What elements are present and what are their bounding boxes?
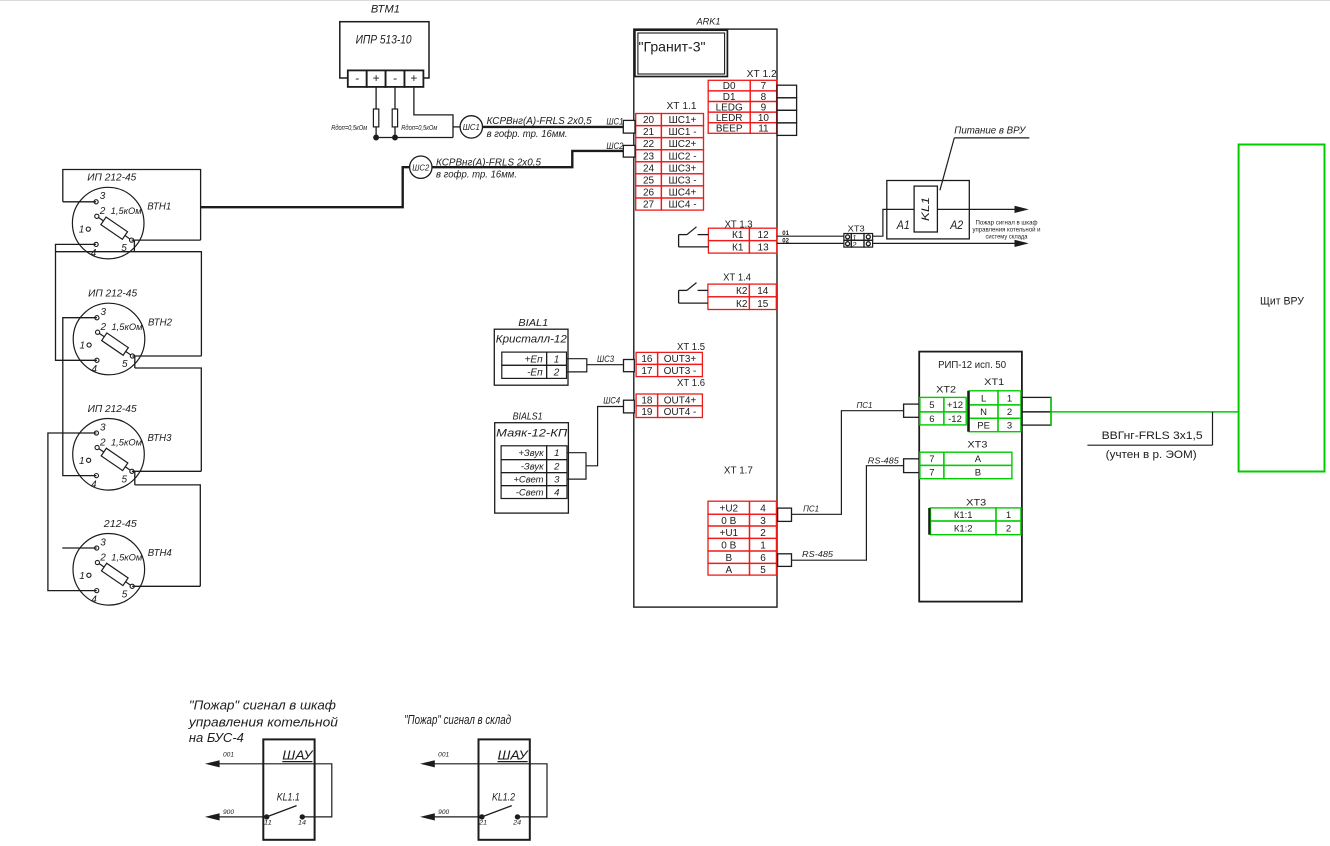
pin 5 of ВТН3	[130, 469, 134, 473]
svg-text:13: 13	[758, 242, 770, 253]
svg-text:001: 001	[223, 753, 234, 759]
svg-text:ВТН1: ВТН1	[147, 202, 171, 213]
svg-text:ИП 212-45: ИП 212-45	[88, 289, 137, 300]
terminal table of BIALS1	[501, 446, 567, 499]
wire 001 output	[209, 764, 332, 817]
svg-text:ХТ 1.4: ХТ 1.4	[723, 272, 751, 283]
resistor 1,5кОм inside ВТН3	[96, 445, 133, 474]
label ШАУ	[282, 747, 314, 762]
terminal table XT1.4 (relay K2)	[708, 284, 776, 310]
svg-text:1: 1	[80, 341, 86, 352]
svg-text:ШС2 -: ШС2 -	[668, 151, 696, 162]
wire ВТН3 pin3 to ВТН4 pin4	[48, 433, 97, 591]
svg-text:-: -	[355, 71, 359, 85]
svg-text:1,5кОм: 1,5кОм	[111, 206, 142, 216]
wire jog box1 to box2	[133, 240, 135, 252]
pin 1 of ВТН1	[86, 227, 90, 231]
svg-text:5: 5	[760, 565, 766, 576]
svg-text:А1: А1	[896, 218, 910, 232]
svg-text:2: 2	[99, 206, 106, 217]
pin 3 of ВТН4	[95, 546, 99, 550]
wire box around ВТН1	[63, 170, 201, 241]
svg-text:ХТ 1.1: ХТ 1.1	[667, 101, 697, 112]
svg-text:L: L	[981, 393, 986, 404]
svg-text:-12: -12	[948, 414, 962, 425]
svg-text:управления котельной: управления котельной	[188, 715, 338, 730]
svg-text:-Звук: -Звук	[521, 462, 544, 473]
svg-text:ШАУ: ШАУ	[282, 747, 314, 762]
terminal table XT1.1	[636, 114, 704, 211]
wire resistors to junction	[375, 127, 377, 138]
node ШС1 (loop 1 cable marker)	[460, 116, 482, 138]
svg-text:+U2: +U2	[719, 503, 738, 514]
connector stub ШС4 at XT1.6	[624, 400, 635, 413]
svg-text:12: 12	[758, 230, 770, 241]
svg-text:OUT4+: OUT4+	[664, 396, 697, 407]
wire 900 output	[209, 816, 267, 818]
svg-text:ШС2+: ШС2+	[669, 139, 697, 150]
svg-text:ХТ3: ХТ3	[967, 440, 987, 450]
svg-text:7: 7	[929, 454, 934, 465]
svg-text:ХТ3: ХТ3	[848, 223, 865, 233]
terminal table XT1 of РИП	[969, 391, 1021, 432]
green wire 220V to Щит ВРУ	[1051, 397, 1239, 425]
svg-text:5: 5	[122, 589, 128, 600]
pin 3 of ВТН3	[94, 431, 98, 435]
pin 2 of ВТН3	[95, 445, 99, 449]
svg-text:5: 5	[929, 400, 934, 411]
svg-text:"Гранит-3": "Гранит-3"	[639, 39, 706, 55]
sounder box Маяк-12-КП	[495, 423, 569, 513]
node ШС2 (loop 2 cable marker)	[410, 156, 432, 178]
svg-text:19: 19	[641, 407, 653, 418]
svg-text:ШС4+: ШС4+	[669, 188, 697, 199]
connector stub ШС3 at XT1.5	[624, 360, 635, 372]
svg-text:ШС3 -: ШС3 -	[668, 176, 696, 187]
svg-text:212-45: 212-45	[103, 519, 138, 530]
svg-text:ПС1: ПС1	[803, 505, 819, 514]
svg-text:ХТ 1.6: ХТ 1.6	[677, 378, 705, 389]
wire RS-485	[792, 466, 904, 561]
wire box around ВТН2	[56, 252, 202, 356]
power supply РИП-12 исп. 50 box	[919, 352, 1022, 602]
label ШАУ	[498, 747, 530, 762]
svg-text:3: 3	[1007, 420, 1012, 431]
svg-text:+: +	[373, 71, 380, 85]
svg-text:1: 1	[1007, 393, 1012, 404]
svg-text:2: 2	[553, 368, 560, 379]
pin 5 of ВТН2	[130, 354, 134, 358]
wire box around ВТН4	[135, 485, 201, 586]
pin 4 of ВТН4	[95, 589, 99, 593]
svg-text:А: А	[725, 565, 732, 576]
svg-text:4: 4	[91, 248, 97, 259]
svg-text:11: 11	[758, 124, 769, 135]
black bracket at XT3 K1	[928, 508, 930, 535]
svg-text:1,5кОм: 1,5кОм	[112, 322, 143, 332]
arrow 001	[420, 760, 435, 767]
svg-text:ШС4 -: ШС4 -	[668, 200, 696, 211]
svg-text:2: 2	[1007, 407, 1012, 418]
svg-text:3: 3	[100, 422, 106, 433]
terminal table of BIAL1	[502, 352, 567, 378]
wire ШС2 cable to Гранит XT1.1	[432, 151, 623, 167]
svg-text:А2: А2	[949, 218, 963, 232]
connector stub ШС2 at XT1.1	[623, 145, 635, 157]
wire box around ВТН3	[135, 368, 202, 471]
svg-text:20: 20	[643, 115, 655, 126]
wire ВТН1 pin3 feed	[63, 201, 96, 203]
wire ПС1	[792, 411, 904, 515]
svg-text:6: 6	[760, 553, 766, 564]
svg-text:1,5кОм: 1,5кОм	[111, 437, 142, 447]
svg-text:ШС2: ШС2	[606, 141, 623, 151]
svg-text:3: 3	[554, 475, 560, 486]
svg-text:1: 1	[554, 448, 559, 459]
wire 02 to output arrow	[873, 242, 1016, 244]
wire from terminal 4 (+) to ШС1 node	[414, 87, 453, 138]
junction dot 2	[393, 135, 398, 140]
svg-text:1: 1	[79, 225, 85, 236]
cabinet ШАУ box (KL1.1)	[263, 739, 314, 839]
svg-text:Маяк-12-КП: Маяк-12-КП	[496, 427, 567, 439]
svg-text:В: В	[725, 553, 732, 564]
svg-text:Питание в ВРУ: Питание в ВРУ	[954, 126, 1027, 137]
svg-text:2: 2	[99, 437, 106, 448]
pin 5 of ВТН4	[130, 584, 134, 588]
relay contact K2	[679, 283, 708, 304]
svg-text:ИП 212-45: ИП 212-45	[88, 404, 137, 415]
svg-text:ШС1: ШС1	[606, 117, 623, 127]
terminal table XT3 A/B of РИП	[920, 452, 1012, 478]
svg-text:1: 1	[760, 540, 766, 551]
note Пожар сигнал в склад	[404, 712, 511, 727]
bracket BIALS1 to ШС4	[567, 453, 586, 479]
svg-text:в гофр. тр. 16мм.: в гофр. тр. 16мм.	[487, 128, 568, 140]
junction dot 1	[374, 135, 379, 140]
svg-text:23: 23	[643, 151, 655, 162]
svg-text:OUT3 -: OUT3 -	[664, 366, 697, 377]
svg-text:1: 1	[554, 354, 560, 365]
svg-text:14: 14	[298, 821, 307, 827]
resistor Rдоп 0,5кОм (left)	[331, 109, 379, 132]
pin 2 of ВТН2	[96, 330, 100, 334]
svg-text:ШС1: ШС1	[463, 122, 480, 132]
svg-text:BEEP: BEEP	[716, 124, 743, 135]
svg-text:ХТ2: ХТ2	[936, 385, 956, 395]
svg-text:1: 1	[1006, 510, 1011, 521]
svg-text:ИПР 513-10: ИПР 513-10	[356, 34, 413, 46]
svg-text:0 В: 0 В	[721, 540, 736, 551]
wire ВТН1 bottom (pin5 to box corner)	[132, 239, 201, 241]
svg-text:ХТ 1.2: ХТ 1.2	[747, 69, 777, 80]
smoke detector ВТН3 (ИП 212-45)	[73, 404, 172, 491]
svg-text:К1: К1	[732, 242, 744, 253]
smoke detector ВТН2 (ИП 212-45)	[73, 289, 172, 376]
svg-text:3: 3	[760, 516, 766, 527]
arrow 900	[205, 813, 220, 820]
resistor 1,5кОм inside ВТН2	[97, 330, 134, 359]
black bracket at XT1	[967, 391, 969, 432]
svg-text:+U1: +U1	[719, 528, 738, 539]
pin 2 of ВТН1	[95, 214, 99, 218]
terminal strip of ИПР 513-10 (- + - +)	[348, 70, 424, 87]
terminal table XT1.6	[636, 394, 702, 418]
svg-text:ВТН4: ВТН4	[148, 548, 172, 559]
svg-text:BIALS1: BIALS1	[513, 410, 543, 422]
note Пожар сигнал в шкаф управления котельной на БУС-4	[188, 697, 338, 745]
pin 4 of ВТН1	[94, 242, 98, 246]
pin 1 of ВТН4	[87, 573, 91, 577]
svg-text:-Еп: -Еп	[527, 368, 543, 379]
svg-text:5: 5	[122, 359, 128, 370]
svg-text:ШС4: ШС4	[603, 396, 620, 406]
svg-text:ХТ1: ХТ1	[984, 377, 1004, 387]
svg-text:4: 4	[91, 594, 97, 605]
svg-text:управления котельной и: управления котельной и	[973, 226, 1041, 234]
svg-text:PE: PE	[977, 420, 990, 431]
resistor Rдоп 0,5кОм (right)	[392, 109, 437, 132]
svg-text:2: 2	[760, 528, 766, 539]
svg-text:К1: К1	[732, 230, 744, 241]
svg-text:ШС2: ШС2	[412, 162, 429, 172]
wire ШС3	[587, 364, 624, 366]
svg-text:4: 4	[92, 364, 98, 375]
wire 900 output	[424, 816, 482, 818]
wire 001 output	[424, 764, 547, 817]
svg-text:02: 02	[782, 238, 789, 244]
svg-text:5: 5	[121, 243, 127, 254]
svg-text:24: 24	[643, 163, 655, 174]
smoke detector ВТН1 (ИП 212-45)	[72, 173, 171, 260]
svg-text:Rдоп=0,5кОм: Rдоп=0,5кОм	[331, 124, 367, 132]
svg-text:В: В	[975, 468, 981, 479]
svg-text:ВТН2: ВТН2	[148, 318, 172, 329]
arrow 900	[420, 813, 435, 820]
pin 3 of ВТН2	[95, 316, 99, 320]
svg-text:ХТ3: ХТ3	[966, 498, 986, 508]
connector stub RS-485 at РИП	[904, 459, 920, 473]
svg-text:18: 18	[641, 396, 653, 407]
wire ВТН1 pin4 to ВТН2 pin4	[56, 244, 97, 360]
wire to ШС1 circle	[453, 126, 460, 128]
svg-text:26: 26	[643, 188, 655, 199]
svg-text:ПС1: ПС1	[857, 401, 873, 410]
wire ВТН4 bottom	[132, 585, 200, 587]
wire junction bus to ШС1	[376, 137, 453, 139]
svg-text:15: 15	[757, 299, 769, 310]
svg-text:+Свет: +Свет	[513, 475, 543, 486]
svg-text:21: 21	[643, 127, 655, 138]
svg-text:1,5кОм: 1,5кОм	[111, 552, 142, 562]
bracket BIAL1 to ШС3	[567, 359, 587, 372]
svg-text:16: 16	[641, 354, 653, 365]
svg-text:А: А	[975, 454, 982, 465]
svg-text:+Звук: +Звук	[518, 448, 544, 459]
svg-text:24: 24	[512, 821, 522, 827]
svg-text:11: 11	[264, 821, 272, 827]
connector stub RS-485 at XT1.7	[778, 554, 792, 567]
smoke detector ВТН4 (212-45)	[73, 519, 172, 606]
svg-text:4: 4	[760, 503, 766, 514]
svg-text:КСРВнг(А)-FRLS 2х0,5: КСРВнг(А)-FRLS 2х0,5	[487, 116, 592, 127]
connector stubs right of XT1.2	[777, 85, 797, 135]
wire jog box3 to box4	[134, 471, 136, 485]
svg-text:7: 7	[929, 468, 934, 479]
svg-text:KL1.2: KL1.2	[492, 792, 515, 804]
svg-text:21: 21	[478, 821, 487, 827]
svg-text:систему склада: систему склада	[986, 234, 1028, 241]
terminal table XT1.3 (relay K1)	[708, 228, 776, 253]
terminal connector XT3	[844, 233, 873, 249]
wire ВТН3 bottom	[132, 470, 201, 472]
wire ШС2 to detector chain	[201, 167, 410, 207]
svg-text:К1:1: К1:1	[954, 510, 973, 521]
wire XT3 to KL1 riser	[873, 209, 1016, 236]
wire from terminal 2 (+) to resistor	[375, 87, 377, 109]
relay contact KL1.2	[480, 806, 520, 820]
svg-text:3: 3	[100, 191, 106, 202]
svg-text:ШС3: ШС3	[597, 354, 614, 364]
resistor 1,5кОм inside ВТН1	[96, 214, 133, 243]
svg-text:900: 900	[223, 810, 235, 816]
svg-text:2: 2	[100, 322, 107, 333]
svg-text:ШС3+: ШС3+	[669, 163, 697, 174]
svg-text:на БУС-4: на БУС-4	[189, 730, 244, 745]
svg-text:5: 5	[122, 474, 128, 485]
wire 02 from K1	[777, 242, 844, 244]
svg-text:2: 2	[1006, 523, 1011, 534]
terminal table XT3 K1 of РИП	[931, 508, 1021, 535]
svg-text:0 В: 0 В	[721, 516, 736, 527]
svg-text:ИП 212-45: ИП 212-45	[87, 173, 136, 184]
svg-text:01: 01	[782, 231, 789, 237]
svg-text:KL1: KL1	[920, 197, 932, 221]
svg-text:2: 2	[99, 552, 106, 563]
pin 4 of ВТН2	[95, 358, 99, 362]
svg-text:900: 900	[438, 810, 450, 816]
pin 1 of ВТН2	[87, 343, 91, 347]
resistor 1,5кОм inside ВТН4	[97, 560, 134, 589]
svg-text:РИП-12 исп. 50: РИП-12 исп. 50	[938, 360, 1006, 371]
svg-text:Щит ВРУ: Щит ВРУ	[1260, 296, 1305, 308]
svg-text:К2: К2	[736, 286, 748, 297]
svg-text:25: 25	[643, 176, 655, 187]
svg-text:ШС1 -: ШС1 -	[668, 127, 696, 138]
connector stub ШС1 at XT1.1	[623, 120, 635, 133]
terminal table XT1.5	[636, 352, 702, 377]
pin 4 of ВТН3	[94, 474, 98, 478]
svg-text:+12: +12	[947, 400, 963, 411]
Гранит-3 name plate	[635, 30, 728, 76]
relay contact KL1.1	[265, 806, 305, 820]
relay contact K1	[679, 227, 709, 247]
pin 5 of ВТН1	[130, 238, 134, 242]
svg-text:27: 27	[643, 200, 655, 211]
svg-text:3: 3	[100, 537, 106, 548]
terminal table XT2 of РИП	[920, 397, 966, 425]
svg-text:RS-485: RS-485	[802, 550, 834, 559]
pin 3 of ВТН1	[94, 200, 98, 204]
svg-text:2: 2	[553, 462, 560, 473]
pin 1 of ВТН3	[87, 458, 91, 462]
svg-text:+Еп: +Еп	[525, 354, 544, 365]
svg-text:Пожар сигнал в шкаф: Пожар сигнал в шкаф	[976, 220, 1038, 227]
svg-text:RS-485: RS-485	[868, 457, 900, 466]
wire ШС4	[586, 407, 624, 466]
svg-text:КСРВнг(А)-FRLS 2х0,5: КСРВнг(А)-FRLS 2х0,5	[436, 158, 541, 169]
wire ВТН2 pin3 to ВТН3 pin4	[63, 318, 97, 476]
pin 2 of ВТН4	[95, 560, 99, 564]
indicator box Кристалл-12	[494, 329, 568, 385]
note Пожар сигнал в шкаф управления котельной и систему склада	[973, 220, 1041, 241]
svg-text:"Пожар" сигнал в шкаф: "Пожар" сигнал в шкаф	[189, 697, 336, 712]
connector stub ПС1 at XT1.7	[778, 508, 792, 521]
svg-text:3: 3	[101, 307, 107, 318]
svg-text:17: 17	[641, 366, 653, 377]
svg-text:ШАУ: ШАУ	[498, 747, 530, 762]
arrow 001	[205, 760, 220, 767]
svg-text:OUT3+: OUT3+	[664, 354, 697, 365]
svg-text:ВВГнг-FRLS 3х1,5: ВВГнг-FRLS 3х1,5	[1102, 430, 1203, 442]
mains stubs right of XT1	[1022, 397, 1051, 425]
svg-text:4: 4	[91, 479, 97, 490]
cable label ВВГнг-FRLS 3x1,5 with leader	[1087, 412, 1212, 461]
terminal table XT1.2	[708, 80, 776, 134]
wire jog box2 to box3	[134, 356, 136, 368]
svg-text:6: 6	[929, 414, 934, 425]
svg-text:ХТ 1.7: ХТ 1.7	[724, 466, 753, 477]
terminal table XT1.7	[708, 501, 776, 576]
relay KL1 outer box	[887, 181, 970, 239]
svg-text:ВТН3: ВТН3	[148, 433, 172, 444]
svg-text:OUT4 -: OUT4 -	[664, 407, 697, 418]
svg-text:22: 22	[643, 139, 655, 150]
svg-text:"Пожар" сигнал в склад: "Пожар" сигнал в склад	[404, 712, 511, 727]
svg-text:К1:2: К1:2	[954, 523, 973, 534]
svg-text:К2: К2	[736, 299, 748, 310]
svg-text:-: -	[393, 71, 397, 85]
label Питание в ВРУ with leader	[940, 126, 1029, 191]
svg-text:N: N	[980, 407, 987, 418]
svg-text:BIAL1: BIAL1	[518, 317, 548, 329]
wire 01 from K1	[777, 235, 844, 237]
wire ВТН4 pin3 stub (end of loop)	[62, 547, 96, 549]
svg-text:ХТ 1.5: ХТ 1.5	[677, 342, 705, 353]
svg-text:Кристалл-12: Кристалл-12	[496, 333, 567, 345]
control panel ARK1 box	[634, 29, 777, 607]
connector stub ПС1 at РИП	[904, 404, 920, 417]
svg-text:+: +	[410, 71, 417, 85]
svg-text:14: 14	[757, 286, 769, 297]
svg-text:ARK1: ARK1	[695, 17, 720, 27]
svg-text:ВТМ1: ВТМ1	[371, 4, 400, 16]
cabinet Щит ВРУ	[1239, 145, 1325, 472]
svg-text:-Свет: -Свет	[516, 488, 544, 499]
svg-text:(учтен в р. ЭОМ): (учтен в р. ЭОМ)	[1106, 449, 1197, 461]
relay KL1 coil box	[914, 186, 937, 232]
svg-text:в гофр. тр. 16мм.: в гофр. тр. 16мм.	[436, 169, 517, 181]
svg-text:1: 1	[79, 456, 85, 467]
manual call point box ИПР 513-10	[340, 22, 429, 78]
svg-text:4: 4	[554, 488, 559, 499]
svg-text:Rдоп=0,5кОм: Rдоп=0,5кОм	[401, 124, 437, 132]
svg-text:001: 001	[438, 753, 449, 759]
svg-text:KL1.1: KL1.1	[277, 792, 300, 804]
svg-text:2: 2	[851, 240, 857, 249]
wire ШС1 cable to Гранит XT1.1	[483, 126, 624, 128]
svg-text:1: 1	[79, 571, 85, 582]
